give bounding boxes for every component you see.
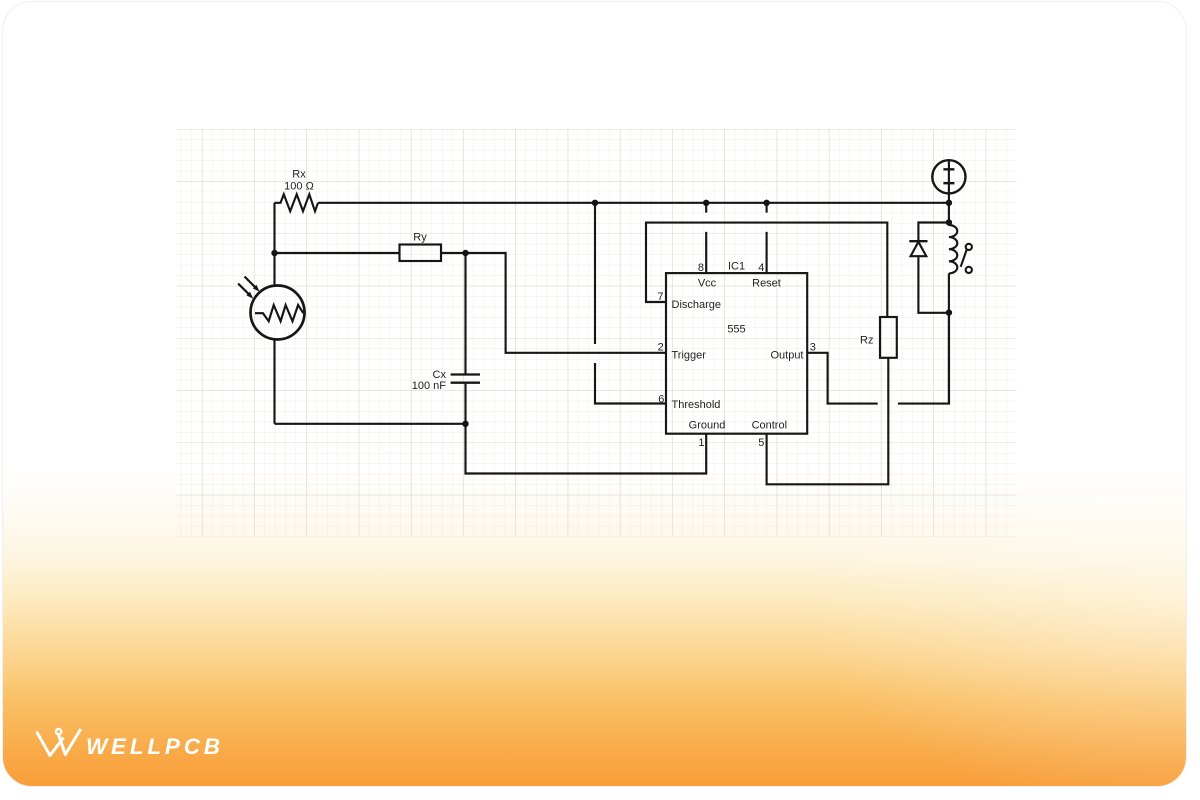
junction node Ry-Cx: [462, 250, 468, 256]
wire pin 4 reset: [766, 203, 768, 273]
LDR arrow 1 head: [253, 285, 260, 292]
svg-text:Rz: Rz: [860, 335, 873, 347]
relay coil L1: [949, 225, 957, 273]
wire cap bottom: [464, 383, 466, 424]
junction node rail-pin4: [763, 200, 769, 206]
photoresistor LDR zigzag: [255, 305, 303, 321]
svg-text:Output: Output: [770, 349, 803, 361]
svg-text:Ry: Ry: [413, 232, 427, 244]
wire coil bottom down: [948, 273, 950, 403]
wire Ry to trigger corner: [441, 253, 666, 353]
wire ground run to pin 1: [466, 424, 707, 474]
diode D1 triangle: [911, 242, 927, 256]
relay switch lever: [961, 250, 967, 267]
resistor Ry: [400, 245, 442, 262]
LDR light arrow 1: [245, 277, 256, 288]
svg-text:8: 8: [698, 262, 704, 274]
relay switch contacts: [966, 244, 972, 250]
svg-text:Vcc: Vcc: [698, 278, 717, 290]
grid background: [177, 129, 1017, 537]
svg-text:Rx: Rx: [292, 169, 306, 181]
svg-text:Threshold: Threshold: [672, 399, 721, 411]
wire cap top: [464, 253, 466, 374]
wire Rz bottom to control pin 5: [767, 358, 889, 485]
junction node rail-pin8: [703, 200, 709, 206]
svg-text:IC1: IC1: [728, 261, 745, 273]
resistor Rx: [275, 194, 319, 211]
junction node relay bottom: [946, 309, 952, 315]
diode D1 branch top: [918, 223, 949, 242]
svg-text:7: 7: [657, 291, 663, 303]
wire bottom left to cap node: [275, 423, 466, 425]
svg-text:100 Ω: 100 Ω: [284, 181, 314, 193]
svg-text:5: 5: [758, 437, 764, 449]
svg-text:2: 2: [658, 341, 664, 353]
svg-text:100 nF: 100 nF: [412, 380, 447, 392]
svg-text:3: 3: [810, 341, 816, 353]
wire threshold feed from rail: [595, 203, 666, 404]
wire output pin 3: [807, 313, 949, 404]
diode D1 branch bottom: [918, 256, 949, 313]
svg-text:Control: Control: [752, 419, 787, 431]
junction node rail-threshold: [592, 200, 598, 206]
capacitor Cx plates: [451, 375, 480, 383]
wire left vertical lower: [273, 339, 275, 424]
svg-text:Reset: Reset: [752, 278, 781, 290]
junction node rail-battery: [946, 200, 952, 206]
WellPCB logo icon: [37, 729, 81, 756]
svg-text:Ground: Ground: [689, 419, 726, 431]
svg-text:Trigger: Trigger: [672, 349, 707, 361]
wire node A to Ry: [275, 252, 400, 254]
op-amp IC1 555 body: [666, 273, 807, 434]
wire top rail Vcc: [318, 202, 949, 204]
diode D1 cathode bar: [909, 240, 927, 242]
LDR light arrow 2: [238, 284, 249, 295]
svg-text:4: 4: [758, 262, 764, 274]
svg-text:WELLPCB: WELLPCB: [86, 734, 224, 759]
junction node relay top: [946, 219, 952, 225]
wire left vertical upper: [273, 203, 275, 286]
wire pin 8 vcc: [705, 203, 707, 273]
svg-text:Discharge: Discharge: [672, 299, 722, 311]
junction node LDR-Ry: [271, 250, 277, 256]
battery B1: [932, 160, 965, 193]
junction node Cx-ground run: [462, 421, 468, 427]
photoresistor LDR body: [251, 286, 305, 340]
wire battery to relay: [948, 160, 950, 225]
wire discharge loop pin 7: [646, 223, 887, 317]
resistor Rz: [880, 317, 897, 358]
LDR arrow 2 head: [246, 292, 253, 299]
svg-text:555: 555: [727, 324, 745, 336]
svg-text:1: 1: [698, 437, 704, 449]
svg-text:6: 6: [658, 393, 664, 405]
